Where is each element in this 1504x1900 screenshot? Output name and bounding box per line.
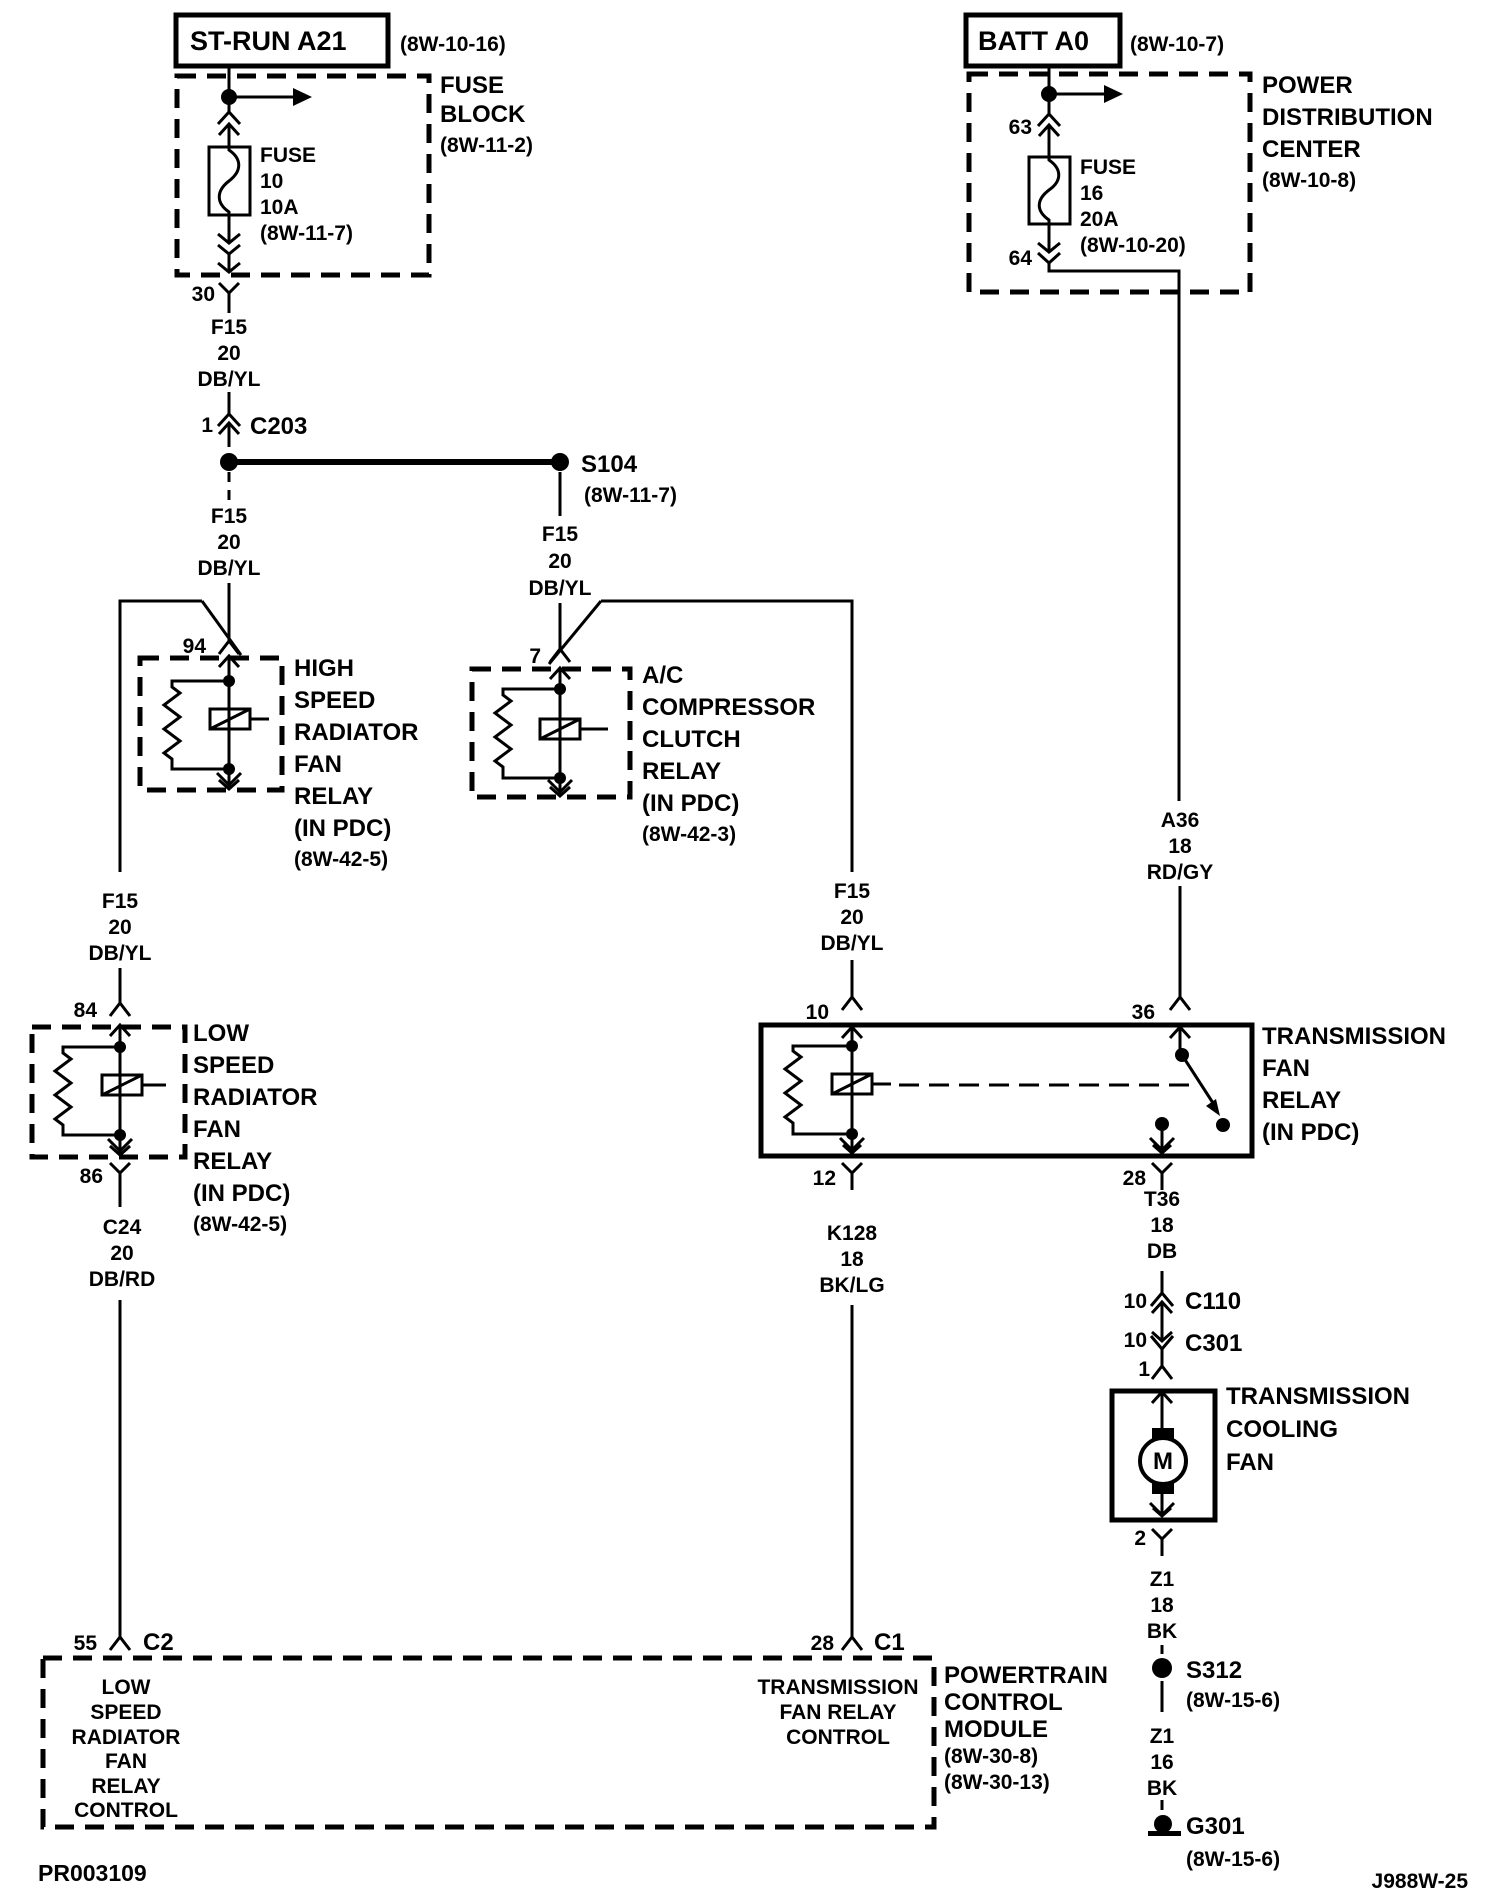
label FUSE BLOCK [440,72,533,157]
svg-text:FAN: FAN [105,1750,147,1773]
svg-text:18: 18 [840,1248,864,1271]
svg-text:T36: T36 [1144,1188,1180,1211]
svg-text:F15: F15 [211,505,248,528]
wire down to pin 84 [119,968,122,1003]
wire label Z1 16 BK [1147,1725,1177,1800]
dashed mechanical link from coil to switch [899,1084,1197,1087]
exit connector at pin 12 [840,1134,864,1153]
svg-text:C1: C1 [874,1629,905,1656]
pin 7 entry arrow into relay [550,668,570,689]
svg-text:BK: BK [1147,1620,1177,1643]
wire label Z1 18 BK [1147,1568,1177,1643]
svg-text:DB/YL: DB/YL [198,557,261,580]
svg-text:TRANSMISSION: TRANSMISSION [1226,1383,1410,1410]
fork at pin 28 [1152,1163,1172,1190]
pin 30 fork below fuse block [219,283,239,313]
svg-text:G301: G301 [1186,1813,1245,1840]
svg-text:20: 20 [548,550,571,573]
fork at pin 12 [842,1163,862,1190]
pin 63 connector symbol (fork + arrow up) [1038,114,1060,157]
node coil bottom junction (low speed) [114,1129,126,1141]
svg-text:12: 12 [813,1167,836,1190]
svg-text:FAN: FAN [294,751,342,778]
svg-text:2: 2 [1134,1527,1146,1550]
fork at fan pin 2 [1152,1529,1172,1556]
module POWERTRAIN CONTROL MODULE box [43,1658,934,1827]
svg-text:(8W-15-6): (8W-15-6) [1186,1848,1280,1871]
label TRANSMISSION FAN RELAY (IN PDC) [1262,1023,1446,1146]
svg-text:J988W-25: J988W-25 [1372,1870,1469,1893]
svg-text:DB/YL: DB/YL [89,942,152,965]
wire label A36 18 RD/GY [1147,809,1214,884]
fuse 10 (10A) symbol [209,147,250,215]
svg-text:84: 84 [74,999,98,1022]
svg-text:F15: F15 [102,890,139,913]
svg-text:POWERTRAIN: POWERTRAIN [944,1662,1108,1689]
svg-text:20: 20 [217,342,240,365]
svg-text:1: 1 [201,414,213,437]
pin 10 entry arrow into relay [842,1027,862,1046]
switch contact node (right) [1216,1118,1230,1132]
node A0 branch dot [1041,86,1057,102]
exit connector at relay bottom [217,769,241,789]
svg-text:86: 86 [80,1165,103,1188]
exit connector at fan bottom [1150,1494,1174,1516]
fork at fan pin 1 [1152,1366,1172,1379]
svg-text:C301: C301 [1185,1330,1242,1357]
svg-text:(8W-30-13): (8W-30-13) [944,1771,1050,1794]
wire label C24 20 DB/RD [89,1216,156,1291]
svg-text:BLOCK: BLOCK [440,101,526,128]
svg-text:DB/YL: DB/YL [198,368,261,391]
relay TRANSMISSION FAN RELAY box [761,1025,1252,1156]
svg-text:DB: DB [1147,1240,1177,1263]
fork at pin 84 [110,1003,130,1016]
svg-text:(IN PDC): (IN PDC) [294,815,391,842]
wire label F15 20 DB/YL (S104 branch) [529,523,592,600]
svg-text:FAN: FAN [193,1116,241,1143]
resistor (A/C relay) [495,689,560,778]
svg-text:RELAY: RELAY [642,758,721,785]
svg-text:POWER: POWER [1262,72,1353,99]
node coil bottom junction (A/C) [554,772,566,784]
resistor (low speed relay) [55,1047,120,1135]
svg-text:10: 10 [806,1001,829,1024]
wire down to PCM pin 28 [851,1305,854,1637]
svg-text:COOLING: COOLING [1226,1416,1338,1443]
fuse 16 (20A) symbol [1029,157,1070,224]
wire to connector C203 [228,392,231,414]
label FUSE 10 10A [260,144,353,245]
svg-text:16: 16 [1150,1751,1173,1774]
splice S104 [551,453,569,471]
svg-text:(IN PDC): (IN PDC) [1262,1119,1359,1146]
node BATT A0 [966,15,1120,66]
svg-text:16: 16 [1080,182,1103,205]
svg-text:RADIATOR: RADIATOR [294,719,418,746]
svg-text:1: 1 [1138,1358,1150,1381]
svg-text:SPEED: SPEED [294,687,375,714]
svg-text:18: 18 [1150,1594,1174,1617]
node A21 branch dot [221,89,237,105]
svg-text:M: M [1153,1448,1173,1475]
svg-text:LOW: LOW [102,1676,151,1699]
switch contact node to pin 28 [1155,1117,1169,1131]
svg-text:10A: 10A [260,196,299,219]
svg-text:FAN: FAN [1262,1055,1310,1082]
node ST-RUN A21 [176,15,388,66]
svg-text:(8W-42-3): (8W-42-3) [642,823,736,846]
svg-text:ST-RUN A21: ST-RUN A21 [190,26,347,56]
wire label F15 20 DB/YL (left branch) [198,505,261,580]
svg-text:(8W-11-7): (8W-11-7) [260,222,353,245]
svg-text:Z1: Z1 [1150,1725,1175,1748]
wire label F15 20 DB/YL (first) [198,316,261,391]
power distribution center box [969,74,1250,292]
svg-text:S104: S104 [581,451,638,478]
wire through coil (trans relay) [851,1046,854,1134]
relay HIGH SPEED RADIATOR FAN RELAY box [140,658,282,790]
svg-text:(8W-10-20): (8W-10-20) [1080,234,1186,257]
node coil bottom junction [223,763,235,775]
svg-text:BK/LG: BK/LG [819,1274,884,1297]
svg-text:C2: C2 [143,1629,174,1656]
node junction below C203 [220,453,238,471]
wire from fuse 16 to transmission fan relay [1049,263,1179,801]
ground G301 [1148,1815,1181,1836]
label S104 [581,451,677,507]
svg-text:BATT A0: BATT A0 [978,26,1089,56]
wire down to pin 94 [228,583,231,641]
svg-text:RELAY: RELAY [193,1148,272,1175]
wire through coil (low speed) [119,1047,122,1135]
svg-text:K128: K128 [827,1222,878,1245]
fork at pin 7 [550,649,570,662]
svg-text:DISTRIBUTION: DISTRIBUTION [1262,104,1433,131]
label TRANSMISSION COOLING FAN [1226,1383,1410,1476]
connector C110 (fork + arrow up) [1151,1293,1173,1330]
svg-text:CLUTCH: CLUTCH [642,726,741,753]
svg-text:RELAY: RELAY [91,1775,160,1798]
svg-text:20: 20 [108,916,131,939]
fork at PCM pin 28 [842,1637,862,1650]
svg-text:HIGH: HIGH [294,655,354,682]
label POWERTRAIN CONTROL MODULE [944,1662,1108,1794]
resistor (high speed relay) [164,681,229,769]
svg-text:(IN PDC): (IN PDC) [193,1180,290,1207]
label S312 [1186,1657,1280,1712]
wire label T36 18 DB [1144,1188,1180,1263]
svg-text:RADIATOR: RADIATOR [72,1726,181,1749]
exit connector at pin 28 [1150,1124,1174,1153]
wire bus to splice S104 [229,459,560,465]
svg-text:28: 28 [1123,1167,1147,1190]
pin 1 entry arrow into fan [1152,1392,1172,1428]
svg-text:A36: A36 [1161,809,1200,832]
svg-text:(8W-11-7): (8W-11-7) [584,484,677,507]
svg-text:TRANSMISSION: TRANSMISSION [1262,1023,1446,1050]
svg-text:A/C: A/C [642,662,683,689]
svg-text:18: 18 [1150,1214,1174,1237]
wire stub to G301 [1161,1800,1164,1810]
pin 84 entry arrow into relay [110,1025,130,1047]
svg-text:F15: F15 [834,880,871,903]
wire down to PCM pin 55 [119,1300,122,1624]
label POWER DISTRIBUTION CENTER [1262,72,1433,192]
switch arm with arrowhead [1182,1055,1220,1116]
svg-text:(8W-42-5): (8W-42-5) [193,1213,287,1236]
svg-text:TRANSMISSION: TRANSMISSION [757,1676,918,1699]
node coil top junction (low speed) [114,1041,126,1053]
svg-text:RELAY: RELAY [294,783,373,810]
connector symbol inside fuse block (fork + arrow up) [218,112,240,148]
svg-text:(8W-10-7): (8W-10-7) [1130,33,1224,56]
wire from T36 label to C110 [1161,1271,1164,1293]
splice S312 [1152,1658,1172,1678]
svg-text:Z1: Z1 [1150,1568,1175,1591]
svg-text:36: 36 [1132,1001,1155,1024]
svg-text:DB/RD: DB/RD [89,1268,156,1291]
fork at pin 10 [842,997,862,1010]
wire stub to S312 [1161,1645,1164,1654]
svg-text:RELAY: RELAY [1262,1087,1341,1114]
motor M symbol [1140,1428,1186,1494]
relay coil (low speed) [102,1075,166,1095]
svg-text:(8W-10-16): (8W-10-16) [400,33,506,56]
pin 36 entry arrow into relay [1170,1027,1190,1054]
wire arrow to other circuits [1049,85,1123,103]
connector C301 (arrow down + fork) [1151,1330,1173,1366]
svg-text:20: 20 [217,531,240,554]
label TRANSMISSION FAN RELAY CONTROL [757,1676,918,1749]
label FUSE 16 20A [1080,156,1186,257]
svg-text:7: 7 [529,645,541,668]
connector C203 (fork + arrow up) [218,414,240,447]
svg-text:C203: C203 [250,413,307,440]
wire stub below C203 node (dashed) [228,472,231,506]
label LOW SPEED RADIATOR FAN RELAY (IN PDC) [193,1020,317,1236]
label LOW SPEED RADIATOR FAN RELAY CONTROL [72,1676,181,1822]
wire from BATT A0 into PDC [1048,66,1051,114]
svg-text:20: 20 [110,1242,133,1265]
svg-text:DB/YL: DB/YL [821,932,884,955]
relay coil (high speed) [210,709,269,729]
wire down to pin 36 [1179,886,1182,997]
relay A/C COMPRESSOR CLUTCH RELAY box [472,669,630,797]
svg-text:COMPRESSOR: COMPRESSOR [642,694,815,721]
label A/C COMPRESSOR CLUTCH RELAY (IN PDC) [642,662,815,846]
pin 64 connector symbol (arrow down + fork) [1038,224,1060,263]
wire down to pin 7 [559,603,562,649]
wire arrow to other circuits [229,88,312,106]
wire label F15 20 DB/YL (right branch to pin 10) [821,880,884,955]
svg-text:94: 94 [183,635,207,658]
svg-text:55: 55 [74,1632,98,1655]
wire stub below S104 [559,472,562,516]
wire down to pin 10 [851,960,854,997]
svg-text:63: 63 [1009,116,1032,139]
svg-text:(8W-42-5): (8W-42-5) [294,848,388,871]
svg-text:CONTROL: CONTROL [944,1689,1063,1716]
svg-text:10: 10 [260,170,283,193]
svg-text:CONTROL: CONTROL [786,1726,890,1749]
node coil top junction [223,675,235,687]
wire from ST-RUN A21 into fuse block [228,66,231,112]
switch pivot node [1175,1048,1189,1062]
svg-text:FAN: FAN [1226,1449,1274,1476]
svg-text:(IN PDC): (IN PDC) [642,790,739,817]
relay coil (trans relay) [832,1074,891,1094]
wire through coil (A/C) [559,689,562,778]
svg-text:F15: F15 [542,523,579,546]
resistor (trans relay) [785,1046,852,1134]
svg-text:(8W-30-8): (8W-30-8) [944,1745,1038,1768]
svg-text:(8W-10-8): (8W-10-8) [1262,169,1356,192]
wire branch to low speed relay (left tap) [120,601,241,872]
wire label F15 20 DB/YL (left branch to pin 84) [89,890,152,965]
svg-text:F15: F15 [211,316,248,339]
svg-text:SPEED: SPEED [90,1701,161,1724]
wire through coil [228,681,231,769]
fork at pin 86 [110,1163,130,1207]
svg-text:28: 28 [811,1632,835,1655]
svg-text:20: 20 [840,906,863,929]
svg-text:(8W-11-2): (8W-11-2) [440,134,533,157]
pin 94 entry arrow into relay [219,656,239,681]
label G301 [1186,1813,1280,1871]
svg-text:30: 30 [192,283,215,306]
svg-text:FUSE: FUSE [260,144,316,167]
svg-text:MODULE: MODULE [944,1716,1048,1743]
fork at PCM pin 55 [110,1637,130,1650]
node coil top junction (trans relay) [846,1040,858,1052]
svg-text:(8W-15-6): (8W-15-6) [1186,1689,1280,1712]
svg-text:CONTROL: CONTROL [74,1799,178,1822]
wire below S312 [1161,1681,1164,1712]
svg-text:PR003109: PR003109 [38,1860,147,1886]
exit connector at low speed relay bottom [108,1135,132,1155]
fuse block FUSE BLOCK box [177,76,429,275]
node coil bottom junction (trans relay) [846,1128,858,1140]
svg-text:20A: 20A [1080,208,1119,231]
svg-text:FAN RELAY: FAN RELAY [779,1701,896,1724]
svg-text:FUSE: FUSE [440,72,504,99]
label HIGH SPEED RADIATOR FAN RELAY (IN PDC) [294,655,418,871]
svg-text:DB/YL: DB/YL [529,577,592,600]
node coil top junction (A/C) [554,683,566,695]
svg-text:CENTER: CENTER [1262,136,1361,163]
motor TRANSMISSION COOLING FAN box [1112,1391,1215,1520]
svg-text:10: 10 [1124,1290,1147,1313]
relay coil (A/C) [540,719,608,739]
svg-text:LOW: LOW [193,1020,249,1047]
svg-text:10: 10 [1124,1329,1147,1352]
svg-text:S312: S312 [1186,1657,1242,1684]
svg-text:RADIATOR: RADIATOR [193,1084,317,1111]
relay LOW SPEED RADIATOR FAN RELAY box [32,1027,185,1157]
wire label K128 18 BK/LG [819,1222,884,1297]
svg-text:FUSE: FUSE [1080,156,1136,179]
svg-text:C24: C24 [103,1216,142,1239]
wire branch to transmission fan relay (right tap) [549,601,852,872]
connector symbol at fuse block exit (double arrow down) [218,215,240,272]
svg-text:BK: BK [1147,1777,1177,1800]
svg-text:SPEED: SPEED [193,1052,274,1079]
svg-text:C110: C110 [1185,1288,1241,1315]
fork at pin 94 [219,641,239,654]
exit connector at A/C relay bottom [548,778,572,796]
svg-text:18: 18 [1168,835,1192,858]
svg-text:64: 64 [1009,247,1033,270]
fork at pin 36 [1170,997,1190,1010]
svg-text:RD/GY: RD/GY [1147,861,1214,884]
